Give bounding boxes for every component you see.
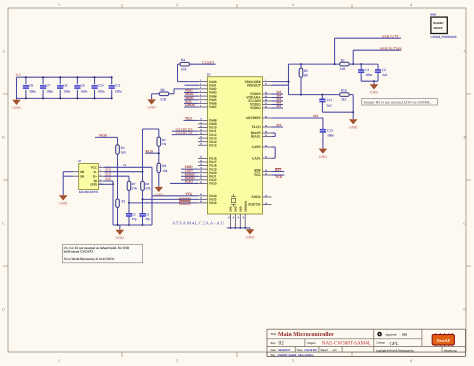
svg-text:R7: R7 — [132, 182, 136, 186]
svg-text:4:19:19 PM: 4:19:19 PM — [304, 349, 317, 352]
wire 3v3 top rail — [17, 76, 112, 78]
svg-text:CW308_THRDSIZE: CW308_THRDSIZE — [431, 35, 457, 39]
svg-text:100n: 100n — [46, 90, 53, 94]
svg-text:R6: R6 — [162, 164, 166, 168]
wire VDDCORE/VDDOUT to node — [272, 64, 290, 85]
net label MOSI2 (PA22) — [181, 176, 198, 180]
wire ID — [104, 181, 114, 185]
svg-text:TIO1: TIO1 — [185, 116, 192, 120]
resistor R2 — [157, 137, 167, 163]
pin VDDCORE — [245, 79, 272, 84]
pin GND (bottom) — [227, 206, 232, 229]
svg-text:USB_P: USB_P — [181, 202, 188, 205]
svg-text:GND: GND — [155, 193, 163, 197]
svg-text:XOUT32: XOUT32 — [248, 203, 261, 207]
svg-text:38: 38 — [265, 105, 267, 108]
svg-text:GND: GND — [230, 206, 233, 212]
svg-text:28/10/2017: 28/10/2017 — [278, 349, 291, 352]
pin PA21 — [198, 174, 217, 179]
svg-text:GND: GND — [116, 236, 124, 240]
net label USART RX (PA11) — [172, 128, 198, 132]
svg-text:Sheet:1: Sheet:1 — [321, 349, 329, 352]
wire ADVREFP — [272, 117, 323, 119]
pin PA11 — [198, 128, 217, 133]
svg-text:Copyright © NewAE Technology I: Copyright © NewAE Technology Inc. — [376, 349, 415, 352]
pin PA13 — [198, 135, 217, 140]
capacitor C6 100n — [23, 76, 36, 99]
resistor R3 1k5 — [116, 137, 126, 198]
svg-text:3v3: 3v3 — [313, 114, 318, 118]
svg-text:C1: C1 — [365, 68, 369, 72]
svg-text:GNDANA: GNDANA — [244, 201, 247, 212]
svg-text:29: 29 — [265, 172, 267, 175]
svg-text:3v3: 3v3 — [276, 123, 281, 127]
svg-text:of 2: of 2 — [333, 349, 338, 352]
net label SCK (PA06) — [184, 99, 198, 103]
ground (C1/C2) — [370, 81, 379, 94]
svg-text:26: 26 — [200, 166, 202, 169]
pin VLCDIN — [248, 98, 271, 103]
svg-text:3v3: 3v3 — [276, 104, 281, 108]
svg-text:34: 34 — [232, 217, 235, 219]
resistor R4 51R — [180, 58, 190, 71]
capacitor C7 100n — [40, 76, 53, 99]
svg-text:Rev:: Rev: — [271, 342, 277, 345]
svg-text:4: 4 — [410, 2, 412, 7]
date time sheet row — [271, 349, 338, 352]
wire divider tap loop — [142, 129, 159, 173]
svg-text:23: 23 — [200, 156, 202, 159]
svg-text:R3: R3 — [121, 146, 125, 150]
svg-text:100n: 100n — [98, 90, 105, 94]
pin VDDIO — [250, 105, 272, 110]
resistor R1 51R — [340, 58, 350, 71]
license cell — [377, 341, 399, 347]
pin XOUT32 — [248, 202, 271, 207]
svg-text:U1: U1 — [207, 73, 211, 77]
logo NewAE — [432, 333, 454, 346]
svg-text:3: 3 — [100, 174, 101, 177]
note C3/C4/X2 — [62, 245, 142, 263]
svg-text:36: 36 — [265, 91, 267, 94]
pin PA18 — [198, 163, 217, 168]
resistor R10 2k2 — [340, 89, 350, 102]
svg-text:Project:: Project: — [307, 342, 316, 345]
svg-text:TCK: TCK — [254, 173, 261, 177]
svg-text:5: 5 — [200, 90, 201, 93]
wire R1 to caps — [349, 63, 378, 65]
svg-text:Title:: Title: — [271, 333, 277, 336]
svg-text:02: 02 — [279, 341, 285, 347]
wire R4 to PA00 — [178, 64, 199, 81]
svg-text:1: 1 — [58, 358, 60, 363]
rev and project — [271, 341, 371, 347]
pin CAPH — [252, 144, 272, 149]
net label MOSI (PA05) — [184, 96, 198, 100]
svg-text:ATSAM4LC2AA-AU: ATSAM4LC2AA-AU — [172, 220, 225, 225]
pin SH (J2) — [73, 174, 85, 178]
svg-text:14: 14 — [265, 202, 267, 205]
resistor R7 27R — [127, 181, 138, 204]
net label RST — [272, 168, 285, 172]
svg-text:31: 31 — [200, 174, 202, 177]
wire D+ to R7 — [104, 176, 129, 181]
pin TCK — [254, 172, 272, 177]
svg-text:8: 8 — [200, 101, 201, 104]
svg-text:R1: R1 — [341, 58, 345, 62]
pin BIASH — [251, 130, 272, 135]
svg-text:D-: D- — [94, 170, 97, 174]
resistor R6 10k — [157, 163, 168, 187]
pin SH (J2) — [73, 170, 85, 174]
pin RST — [254, 169, 271, 174]
pin GND (bottom) — [232, 206, 237, 229]
svg-text:License: License — [377, 341, 386, 344]
file row — [271, 354, 315, 357]
svg-text:GND: GND — [349, 125, 357, 129]
svg-text:27: 27 — [200, 170, 202, 173]
wire D- to R8 — [104, 172, 143, 182]
svg-text:35: 35 — [237, 217, 240, 219]
svg-text:43: 43 — [200, 200, 202, 203]
svg-text:BIASL: BIASL — [251, 135, 261, 139]
svg-text:33: 33 — [227, 217, 230, 219]
net label PA19 (divider) — [145, 150, 160, 155]
svg-text:21: 21 — [265, 102, 267, 105]
svg-text:CW308T_SAM4L_Micro.SchDoc: CW308T_SAM4L_Micro.SchDoc — [278, 354, 315, 357]
net label MISO2 (PA21) — [181, 172, 198, 176]
svg-text:GND: GND — [246, 236, 254, 240]
svg-text:X2: X2 — [121, 200, 125, 204]
ESD protection U3 — [106, 167, 110, 180]
svg-text:XIN32: XIN32 — [251, 195, 261, 199]
board shape symbol BRD — [430, 13, 456, 39]
svg-text:NewAE.com: NewAE.com — [444, 349, 457, 352]
svg-text:100n: 100n — [29, 90, 36, 94]
net labels 3v3 (VDD pins) — [272, 90, 284, 108]
svg-text:C3: C3 — [132, 212, 136, 216]
svg-text:51R: 51R — [181, 68, 187, 72]
svg-text:51R: 51R — [161, 97, 167, 101]
pin PA23 — [198, 181, 217, 186]
connector J2 micro-USB body — [79, 164, 99, 190]
crystal symbol at XIN32 — [231, 194, 236, 207]
svg-text:51R: 51R — [340, 67, 346, 71]
pin PA05 — [198, 97, 217, 102]
net label PDID (PA19) — [181, 165, 198, 169]
wire CAPH-CAPL tie — [272, 147, 276, 158]
svg-text:4: 4 — [410, 358, 412, 363]
capacitor C12 2u2 — [319, 95, 332, 113]
pin D+ (J2) — [93, 174, 104, 179]
svg-text:100n: 100n — [365, 73, 372, 77]
svg-text:ESB: ESB — [402, 334, 407, 337]
svg-text:2k2: 2k2 — [341, 97, 346, 101]
svg-text:2: 2 — [176, 2, 178, 7]
svg-text:7: 7 — [200, 97, 201, 100]
pin PA16 — [198, 156, 217, 161]
pin D- (J2) — [94, 169, 104, 174]
svg-text:14: 14 — [200, 132, 202, 135]
svg-text:GPL: GPL — [390, 341, 399, 347]
svg-text:3: 3 — [292, 2, 294, 7]
crystal X2 — [116, 199, 126, 225]
pin VDDANA — [246, 95, 271, 100]
resistor R8 27R — [141, 181, 152, 200]
svg-text:GND: GND — [235, 206, 238, 212]
capacitor C3 47p — [126, 203, 137, 226]
part value 4UCON-USB — [79, 190, 99, 194]
svg-text:27R: 27R — [145, 187, 151, 191]
ground (R10/C12) — [349, 112, 358, 129]
svg-text:2u2: 2u2 — [327, 103, 332, 107]
svg-text:19: 19 — [200, 143, 202, 146]
microcontroller U1 ATSAM4LC2AA-AU body — [208, 77, 263, 214]
pin VLCD — [252, 124, 272, 129]
resistor R9 51R — [159, 88, 169, 101]
svg-text:VDDOUT: VDDOUT — [247, 83, 261, 87]
svg-text:C11: C11 — [115, 84, 121, 88]
pin VDDIO — [250, 102, 272, 107]
svg-text:GND: GND — [59, 202, 67, 206]
svg-text:PA26: PA26 — [99, 133, 107, 137]
svg-text:Date:: Date: — [271, 349, 277, 352]
pin PA14 — [198, 139, 217, 144]
pin VDDIN — [250, 91, 272, 96]
svg-text:VTG: VTG — [185, 192, 192, 196]
wire LDO lower rail — [289, 85, 340, 95]
svg-text:1k5: 1k5 — [121, 150, 126, 154]
net label 3v3 (VLCD) — [272, 123, 284, 127]
svg-text:PA15: PA15 — [209, 143, 217, 147]
net label GPIO4 (PA07) — [184, 103, 198, 107]
svg-text:TCK: TCK — [275, 175, 282, 179]
svg-text:VDDIO: VDDIO — [250, 106, 261, 110]
port USB_P (PA26) — [129, 202, 198, 205]
svg-text:PA23: PA23 — [209, 182, 217, 186]
svg-text:1%: 1% — [162, 142, 167, 146]
svg-text:PA07: PA07 — [209, 105, 217, 109]
net label PA08 — [184, 116, 199, 120]
wire USB ground rail — [113, 224, 152, 226]
svg-text:NAE-CW308T-SAM4L: NAE-CW308T-SAM4L — [322, 341, 371, 347]
svg-text:1: 1 — [58, 2, 60, 7]
svg-text:47p: 47p — [132, 217, 137, 221]
ground (C13) — [319, 149, 328, 159]
svg-text:9: 9 — [200, 104, 201, 107]
net label CLKIN — [202, 60, 214, 64]
net label USART TX (PA12) — [172, 131, 198, 135]
pin GND (J2) — [90, 182, 104, 187]
svg-text:24: 24 — [200, 159, 202, 162]
pin PA19 — [198, 166, 217, 171]
title text — [271, 331, 335, 338]
net label TCK — [272, 175, 285, 179]
svg-text:Time:: Time: — [297, 349, 303, 352]
copyright cells — [376, 349, 457, 352]
pin VDDOUT — [247, 83, 272, 88]
svg-text:4: 4 — [200, 86, 201, 89]
svg-text:C10: C10 — [98, 84, 104, 88]
svg-text:GND: GND — [240, 206, 243, 212]
wire J2 GND down — [99, 184, 114, 225]
wire C1/C2 ground rail — [361, 80, 378, 82]
pin PA03 — [198, 90, 217, 95]
capacitor C13 100n — [320, 118, 334, 149]
svg-text:R8: R8 — [145, 182, 149, 186]
ground (U1) — [246, 228, 255, 240]
svg-text:BRD: BRD — [430, 13, 436, 17]
svg-text:36: 36 — [242, 217, 245, 219]
svg-text:X2 is Wurth Electronics 41 014: X2 is Wurth Electronics 41 0143 58721. — [64, 257, 116, 261]
net label MISO (PA04) — [184, 92, 198, 96]
capacitor C4 47p — [139, 199, 150, 226]
svg-text:C2: C2 — [382, 68, 386, 72]
net label SCK2 (PA23) — [170, 179, 198, 183]
svg-text:1: 1 — [265, 79, 266, 82]
svg-text:41: 41 — [200, 193, 202, 196]
pin PA08 — [198, 118, 217, 123]
part value ATSAM4LC2AA-AU — [172, 220, 225, 225]
svg-text:34: 34 — [265, 156, 267, 159]
pin PA25 — [198, 197, 217, 202]
svg-text:A: A — [463, 50, 466, 54]
svg-text:33: 33 — [200, 181, 202, 184]
svg-text:3v3: 3v3 — [15, 73, 20, 77]
svg-text:40: 40 — [265, 124, 267, 127]
wire VDD top rail — [289, 63, 340, 65]
connector J2 designator — [78, 159, 81, 163]
wire gnd bottom rail — [17, 77, 112, 98]
svg-text:28: 28 — [265, 169, 267, 172]
svg-text:BOARD: BOARD — [433, 21, 443, 25]
svg-text:C4: C4 — [145, 212, 149, 216]
resistor R5 jumper — [299, 64, 308, 95]
svg-text:13: 13 — [200, 128, 202, 131]
svg-text:PA19: PA19 — [145, 150, 153, 154]
svg-text:100n: 100n — [81, 90, 88, 94]
pin PA07 — [198, 104, 217, 109]
svg-text:SHAPE: SHAPE — [433, 26, 442, 30]
pin ADVREFP — [246, 115, 272, 120]
svg-text:27R: 27R — [132, 187, 138, 191]
svg-text:GND: GND — [90, 182, 97, 186]
svg-text:13: 13 — [265, 194, 267, 197]
net label PDIC (PA03) — [184, 88, 198, 92]
wire VCC +5 — [104, 167, 152, 225]
svg-text:Jumper R5 to use internal LDO: Jumper R5 to use internal LDO on SAM4L. — [363, 101, 431, 105]
wire BIASH-BIASL tie — [272, 133, 276, 137]
svg-text:C9: C9 — [81, 84, 85, 88]
pin PA00 — [198, 79, 217, 84]
svg-text:R4: R4 — [181, 58, 185, 62]
svg-text:C6: C6 — [29, 84, 33, 88]
net label SER/N-TMS — [380, 46, 403, 51]
svg-text:USB_N: USB_N — [181, 198, 188, 201]
svg-text:A: A — [2, 50, 5, 54]
svg-text:NewAE: NewAE — [435, 338, 450, 343]
svg-text:GPIO4: GPIO4 — [185, 103, 195, 107]
svg-text:2: 2 — [200, 79, 201, 82]
svg-text:build mount C3/C4/X2.: build mount C3/C4/X2. — [64, 250, 94, 254]
svg-text:PA26: PA26 — [209, 201, 217, 205]
pin PA02 — [198, 86, 217, 91]
svg-text:39: 39 — [265, 130, 267, 133]
svg-text:12: 12 — [200, 125, 202, 128]
svg-text:10k: 10k — [162, 169, 167, 173]
svg-text:C7: C7 — [46, 84, 50, 88]
svg-text:15: 15 — [200, 135, 202, 138]
svg-text:25: 25 — [200, 163, 202, 166]
ground (J2 shield) — [59, 195, 68, 205]
pin PA04 — [198, 93, 217, 98]
svg-text:46: 46 — [265, 115, 267, 118]
pin PA22 — [198, 177, 217, 182]
svg-text:D: D — [463, 308, 466, 312]
pin PA15 — [198, 143, 217, 148]
capacitor C9 100n — [74, 76, 87, 99]
net label PA26 (pull-up) — [95, 133, 118, 137]
svg-text:2: 2 — [100, 169, 101, 172]
note jumper R5 — [362, 99, 438, 105]
svg-text:16: 16 — [200, 139, 202, 142]
net 3v3 label (cap bank) — [15, 73, 20, 77]
ground (R6) — [155, 187, 164, 197]
wire C12 ground rail — [322, 111, 354, 113]
pin PA26 — [198, 200, 217, 205]
svg-text:ADVREFP: ADVREFP — [246, 116, 261, 120]
net label SER/VTT — [382, 34, 399, 39]
svg-text:CAPH: CAPH — [252, 145, 261, 149]
op-amp U1 designator — [207, 73, 211, 77]
port USB_N (PA25) — [142, 198, 198, 201]
net label LED1 (PA20) — [181, 169, 198, 173]
pin PA12 — [198, 132, 217, 137]
pin PA20 — [198, 170, 217, 175]
ground (USB rail) — [116, 225, 125, 240]
svg-text:GND: GND — [319, 155, 327, 159]
svg-text:2u2: 2u2 — [382, 73, 387, 77]
svg-text:GND: GND — [147, 106, 155, 110]
svg-text:47: 47 — [265, 83, 267, 86]
svg-text:100n: 100n — [63, 90, 70, 94]
svg-text:42410SLN0721: 42410SLN0721 — [79, 190, 99, 194]
net label +5 — [123, 164, 127, 167]
capacitor C1 100n — [358, 64, 372, 81]
svg-text:GND: GND — [370, 91, 378, 95]
net label VTG (PA24) — [152, 192, 198, 196]
pin XIN32 — [251, 194, 271, 199]
svg-text:VLCD: VLCD — [252, 125, 262, 129]
capacitor C11 100n — [109, 76, 122, 99]
ground (cap bank) — [12, 98, 21, 110]
svg-text:SER/VTT: SER/VTT — [382, 34, 399, 39]
pin PA06 — [198, 101, 217, 106]
svg-text:VCC: VCC — [91, 165, 97, 169]
svg-text:R5: R5 — [304, 69, 308, 73]
svg-text:SCK2: SCK2 — [185, 179, 193, 183]
ground (R9) — [147, 94, 159, 110]
capacitor C8 100n — [57, 76, 70, 99]
svg-text:R10: R10 — [341, 89, 347, 93]
pin PA24 — [198, 193, 217, 198]
pin PA09 — [198, 121, 217, 126]
pin ID (J2) — [94, 178, 104, 183]
svg-text:CAPL: CAPL — [252, 156, 260, 160]
pin BIASL — [251, 134, 271, 139]
svg-text:10: 10 — [200, 118, 202, 121]
svg-text:45: 45 — [265, 95, 267, 98]
